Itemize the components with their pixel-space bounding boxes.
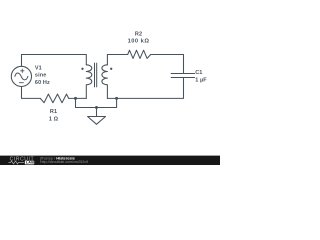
transformer core lines [95,63,97,87]
wire top rail left loop [22,55,87,65]
V1 plus sign [21,69,24,72]
junction dot left [74,97,77,100]
wire left vertical bottom segment [21,87,23,99]
resistor R1 zigzag [40,94,68,103]
CircuitLab logo LAB box [25,161,34,165]
footer bar [0,156,220,165]
wire bottom rail left of R1 [22,97,41,99]
capacitor C1 plates [171,74,194,78]
svg-text:R2: R2 [135,32,142,38]
transformer secondary phase dot [110,68,112,70]
transformer secondary winding L2 [102,65,108,99]
voltage source V1 circle [11,66,31,86]
svg-text:sine: sine [35,73,47,79]
svg-text:100 kΩ: 100 kΩ [128,38,150,44]
svg-text:60 Hz: 60 Hz [35,80,50,86]
junction dot right [115,97,118,100]
wire lower link rail [76,98,117,107]
junction dot ground [95,106,98,109]
wire C1 bottom lead and bottom rail right loop [117,78,184,99]
V1 minus sign [19,82,23,84]
transformer primary phase dot [81,68,83,70]
transformer primary winding L1 [86,65,92,99]
svg-text:http://circuitlab.com/cm252v9: http://circuitlab.com/cm252v9 [40,160,88,164]
wire left vertical top segment [21,55,23,67]
wire secondary bottom lead [107,97,116,99]
resistor R2 zigzag [128,50,151,58]
svg-text:1 µF: 1 µF [195,77,207,83]
svg-text:V1: V1 [35,65,42,71]
wire secondary top lead [107,55,127,65]
wire ground stub [96,108,98,117]
ground symbol [88,117,106,125]
CircuitLab logo zigzag [8,161,24,164]
svg-text:1 Ω: 1 Ω [49,116,59,122]
svg-text:R1: R1 [50,109,57,115]
svg-text:LAB: LAB [26,161,35,165]
wire top rail to C1 [151,55,184,74]
svg-text:C1: C1 [195,70,202,76]
V1 sine wave [15,73,28,80]
wire R1 to primary lead [69,97,87,99]
